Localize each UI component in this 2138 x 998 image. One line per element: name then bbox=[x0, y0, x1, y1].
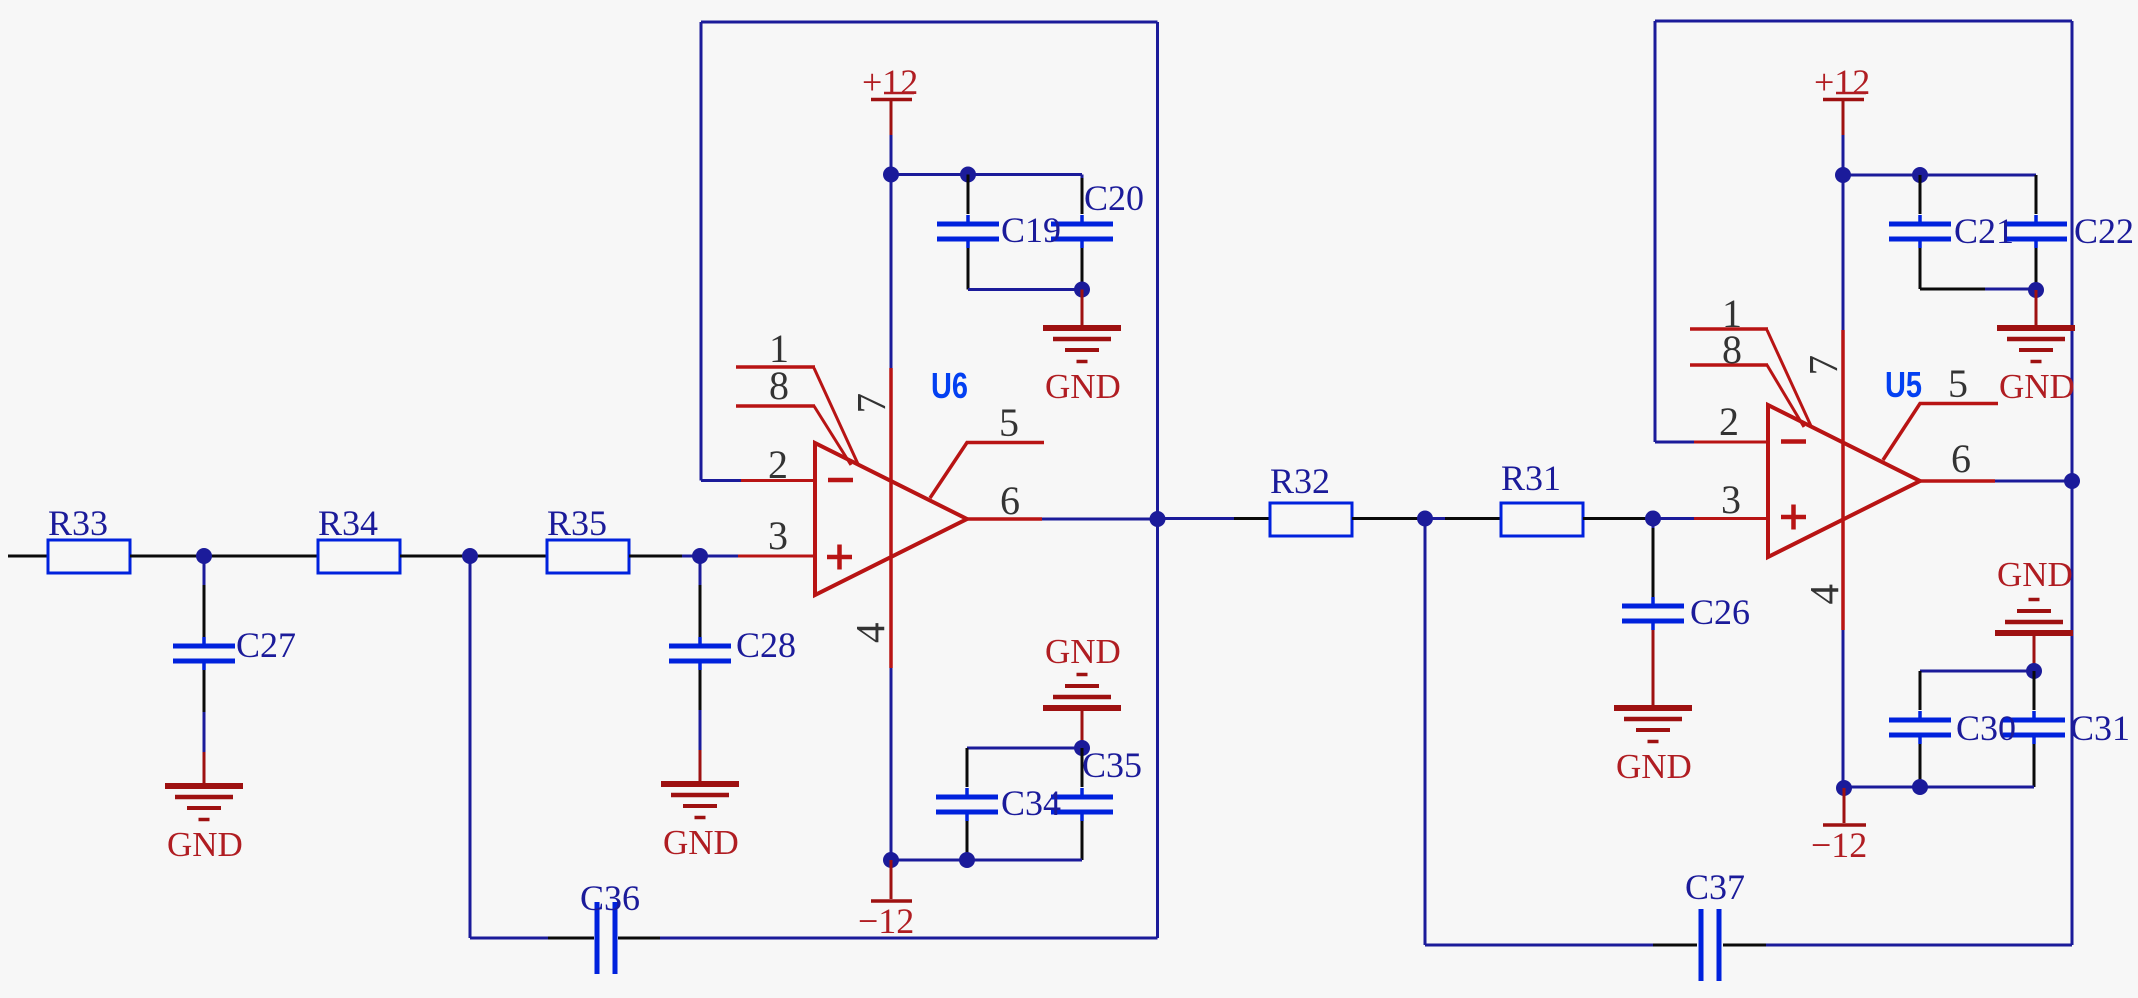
svg-text:GND: GND bbox=[1616, 747, 1692, 786]
svg-text:R32: R32 bbox=[1270, 461, 1330, 501]
svg-text:−12: −12 bbox=[858, 901, 914, 941]
svg-text:C35: C35 bbox=[1082, 745, 1142, 785]
svg-text:C27: C27 bbox=[236, 625, 296, 665]
svg-text:2: 2 bbox=[768, 442, 788, 487]
svg-text:3: 3 bbox=[1721, 477, 1741, 522]
svg-text:4: 4 bbox=[847, 623, 893, 644]
svg-text:R31: R31 bbox=[1501, 458, 1561, 498]
svg-text:C28: C28 bbox=[736, 625, 796, 665]
svg-text:C26: C26 bbox=[1690, 592, 1750, 632]
svg-text:U6: U6 bbox=[931, 365, 968, 406]
svg-text:7: 7 bbox=[1800, 355, 1846, 376]
svg-text:U5: U5 bbox=[1885, 364, 1922, 405]
svg-text:5: 5 bbox=[1948, 361, 1968, 406]
svg-text:−12: −12 bbox=[1811, 825, 1867, 865]
svg-text:GND: GND bbox=[1045, 367, 1121, 406]
svg-text:C37: C37 bbox=[1685, 867, 1745, 907]
svg-text:4: 4 bbox=[1801, 584, 1847, 605]
svg-text:GND: GND bbox=[1999, 367, 2075, 406]
svg-text:C20: C20 bbox=[1084, 178, 1144, 218]
svg-text:8: 8 bbox=[1722, 327, 1742, 372]
svg-text:GND: GND bbox=[167, 825, 243, 864]
svg-text:GND: GND bbox=[1997, 555, 2073, 594]
svg-text:GND: GND bbox=[663, 823, 739, 862]
svg-text:+12: +12 bbox=[1814, 62, 1870, 102]
svg-text:3: 3 bbox=[768, 513, 788, 558]
svg-text:8: 8 bbox=[769, 363, 789, 408]
svg-text:5: 5 bbox=[999, 400, 1019, 445]
svg-text:C30: C30 bbox=[1956, 708, 2016, 748]
svg-text:2: 2 bbox=[1719, 399, 1739, 444]
svg-text:R34: R34 bbox=[318, 503, 378, 543]
svg-text:GND: GND bbox=[1045, 632, 1121, 671]
svg-text:C22: C22 bbox=[2074, 211, 2134, 251]
svg-text:7: 7 bbox=[848, 393, 894, 414]
svg-text:+12: +12 bbox=[862, 62, 918, 102]
svg-text:C21: C21 bbox=[1954, 211, 2014, 251]
svg-text:R35: R35 bbox=[547, 503, 607, 543]
svg-text:6: 6 bbox=[1000, 478, 1020, 523]
svg-text:R33: R33 bbox=[48, 503, 108, 543]
svg-text:C31: C31 bbox=[2070, 708, 2130, 748]
svg-text:C19: C19 bbox=[1001, 210, 1061, 250]
svg-text:C34: C34 bbox=[1001, 783, 1061, 823]
svg-text:6: 6 bbox=[1951, 436, 1971, 481]
svg-text:C36: C36 bbox=[580, 878, 640, 918]
